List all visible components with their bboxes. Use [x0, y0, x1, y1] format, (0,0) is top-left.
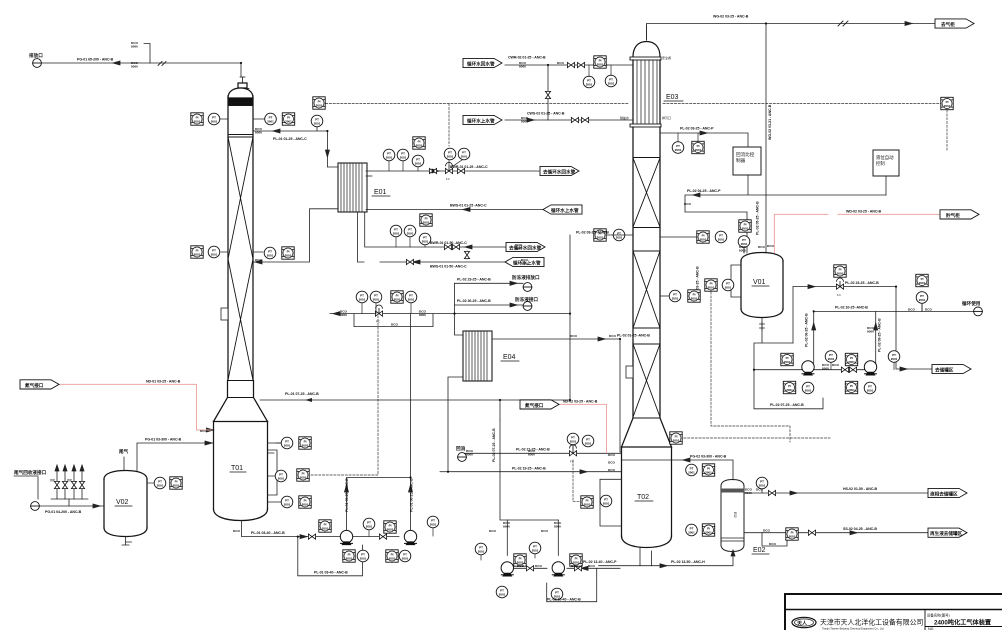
flag [463, 115, 502, 124]
svg-text:制器: 制器 [736, 157, 746, 164]
instrument bubble [613, 229, 625, 241]
svg-text:DCO: DCO [517, 564, 524, 568]
instrument bubble [672, 142, 684, 154]
svg-text:PL-01 06-25 - ANC-B: PL-01 06-25 - ANC-B [410, 478, 414, 512]
svg-text:8000: 8000 [822, 367, 829, 371]
svg-text:DCO: DCO [925, 307, 932, 311]
instrument bubble [715, 231, 727, 243]
instrument bubble [404, 225, 416, 237]
valve [457, 168, 464, 173]
flag [463, 58, 502, 67]
instrument square [845, 353, 857, 365]
instrument bubble [405, 291, 417, 303]
vent [458, 453, 467, 462]
instrument bubble [419, 233, 431, 245]
svg-text:DCO: DCO [908, 307, 915, 311]
svg-text:去循环水回水管: 去循环水回水管 [543, 168, 576, 175]
wire pump risers [347, 478, 411, 530]
instrument bubble [208, 246, 220, 258]
flag [932, 364, 971, 373]
wire T02 pump discharge [514, 567, 620, 569]
svg-text:SS-02 04-25 - ANC-B: SS-02 04-25 - ANC-B [843, 527, 877, 531]
svg-text:PL-02 01-25 -ANC-B: PL-02 01-25 -ANC-B [617, 334, 650, 338]
instrument square [570, 554, 582, 566]
valve [406, 259, 413, 264]
condenser E03 on column T02 [630, 26, 661, 127]
instrument bubble [888, 351, 900, 363]
vent [33, 59, 42, 68]
wire T02 right to E02 [672, 460, 734, 480]
wire E04 bottom to T02 lower feed [448, 377, 622, 472]
dashed signal lines [311, 104, 947, 502]
valve [54, 481, 59, 488]
instrument square [845, 381, 857, 393]
pump [404, 530, 416, 545]
instrument bubble [583, 76, 595, 88]
svg-text:V02: V02 [116, 499, 129, 506]
svg-text:DCO: DCO [588, 564, 595, 568]
wire E01 top circuit to CW flags [366, 170, 539, 172]
column T02 shell [622, 127, 672, 548]
instrument bubble [383, 149, 395, 161]
flag [20, 380, 59, 389]
wire storage flag line [896, 311, 932, 369]
column T01 shell [214, 77, 268, 521]
svg-text:BWS-01 01-50 -ANC-C: BWS-01 01-50 -ANC-C [430, 265, 467, 269]
reflux control box [733, 147, 761, 175]
svg-text:阻聚: 阻聚 [50, 478, 55, 482]
instrument bubble [600, 495, 612, 507]
wire overhead drop to V01 [765, 24, 767, 253]
svg-text:PL-01 05-25 - ANC-B: PL-01 05-25 - ANC-B [345, 478, 349, 512]
instrument bubble [427, 516, 439, 528]
svg-text:去循环水回水管: 去循环水回水管 [509, 244, 542, 251]
instrument square [739, 220, 751, 232]
wire T02 upper feed line [462, 452, 622, 454]
instrument square [697, 231, 709, 243]
wire vent to V02 [40, 505, 105, 507]
valve [444, 244, 451, 249]
svg-text:BWR-01 01-25 - ANC-C: BWR-01 01-25 - ANC-C [450, 165, 488, 169]
svg-text:E02: E02 [733, 512, 737, 518]
svg-text:天津市天人北洋化工设备有限公司: 天津市天人北洋化工设备有限公司 [820, 618, 923, 627]
instrument square [781, 353, 793, 365]
svg-text:E01: E01 [374, 189, 387, 196]
svg-text:PL-01 07-25 - ANC-B: PL-01 07-25 - ANC-B [285, 392, 319, 396]
instrument bubble [686, 464, 698, 476]
vent [31, 502, 40, 511]
instrument square [282, 247, 294, 259]
instrument squares [170, 56, 953, 566]
wire T01 right nozzle stems [268, 443, 282, 453]
flag [506, 242, 545, 251]
svg-text:PL-02 07-25 - ANC-B: PL-02 07-25 - ANC-B [492, 428, 496, 462]
svg-text:HS-02 01-50 - ANC-B: HS-02 01-50 - ANC-B [843, 487, 878, 491]
flag [928, 488, 967, 497]
svg-text:防冻液排放口: 防冻液排放口 [512, 274, 540, 281]
svg-text:DCO: DCO [767, 244, 774, 248]
flag [543, 205, 582, 214]
svg-text:8000: 8000 [419, 313, 426, 317]
instrument bubble [686, 524, 698, 536]
svg-text:N0:: N0: [928, 626, 934, 630]
svg-text:液位自动: 液位自动 [876, 154, 894, 161]
wire V01 level bridle [731, 265, 741, 297]
instrument bubble [738, 236, 750, 248]
exchanger E02 shell [721, 480, 744, 552]
instrument bubble [551, 588, 563, 600]
valve [581, 117, 588, 122]
instrument square [191, 246, 203, 258]
instrument bubble [154, 477, 166, 489]
svg-text:PL-02 19-25 - ANC-B: PL-02 19-25 - ANC-B [512, 467, 546, 471]
wire pump2 risers [814, 311, 876, 363]
svg-text:BWR-01 01-50 -ANC-C: BWR-01 01-50 -ANC-C [430, 241, 467, 245]
svg-text:BWS-01 01-25 -ANC-C: BWS-01 01-25 -ANC-C [450, 204, 487, 208]
instrument stems [147, 65, 922, 560]
svg-text:Tianjin Tianren Beiyang Chemic: Tianjin Tianren Beiyang Chemical Equipme… [822, 627, 884, 630]
svg-text:去储罐区: 去储罐区 [935, 366, 954, 373]
svg-text:排放口: 排放口 [29, 52, 43, 59]
level control box [873, 150, 899, 176]
instrument bubble [669, 290, 681, 302]
valve [526, 566, 533, 571]
wire E02 regen line [744, 532, 928, 534]
svg-text:氮气接口: 氮气接口 [25, 382, 44, 389]
instrument bubble [390, 225, 402, 237]
svg-text:DCO: DCO [233, 529, 240, 533]
instrument bubble [363, 518, 375, 530]
svg-text:8000: 8000 [503, 525, 510, 529]
svg-text:DCO: DCO [200, 429, 207, 433]
svg-text:8000: 8000 [745, 491, 752, 495]
svg-text:8000: 8000 [255, 131, 262, 135]
svg-text:再生液去储罐区: 再生液去储罐区 [930, 530, 963, 537]
instrument square [916, 274, 928, 286]
svg-text:PL-02 26-25 - ANC-B: PL-02 26-25 - ANC-B [457, 299, 491, 303]
instrument bubble [722, 279, 734, 291]
manhole T01 [221, 308, 228, 320]
svg-text:PL-02 03-25 -ANC-B: PL-02 03-25 -ANC-B [576, 231, 609, 235]
valve [71, 481, 76, 488]
svg-text:PG-01 65-200 - ANC-B: PG-01 65-200 - ANC-B [77, 58, 114, 62]
wire T01 side line PL-01 07 [260, 339, 570, 420]
svg-text:DCO: DCO [608, 453, 615, 457]
instrument bubble [864, 382, 876, 394]
svg-text:V01: V01 [753, 279, 766, 286]
pump [340, 530, 352, 545]
wire T02 bottom outlet [640, 547, 651, 565]
svg-text:除盐水: 除盐水 [620, 115, 629, 120]
svg-text:F.C: F.C [837, 293, 841, 297]
svg-text:PL-02 13-40 - ANC-P: PL-02 13-40 - ANC-P [583, 560, 617, 564]
vessel V02 shell [104, 471, 147, 537]
wire E04 outlet to T02 feed [492, 339, 622, 452]
wire TC stem top [316, 127, 318, 131]
valve [567, 62, 574, 67]
wire V02 overhead to T01 [137, 443, 214, 471]
svg-text:PL-02 06-25 - ANC-B: PL-02 06-25 - ANC-B [805, 313, 809, 347]
wire pump discharge riser to FIC line [410, 314, 412, 478]
control valve [569, 445, 576, 456]
flag [928, 528, 967, 537]
wire E03 reflux out to box [660, 133, 748, 147]
svg-text:PL-01 03-40 - ANC-B: PL-01 03-40 - ANC-B [314, 571, 348, 575]
instrument bubble [567, 433, 579, 445]
instrument square [692, 141, 704, 153]
svg-text:尾气: 尾气 [119, 448, 129, 455]
instrument square [297, 469, 309, 481]
svg-text:尾气回收液接口: 尾气回收液接口 [14, 469, 47, 476]
instrument square [594, 56, 606, 68]
valve [79, 481, 84, 488]
svg-text:DCO: DCO [763, 529, 770, 533]
svg-text:8000: 8000 [554, 525, 561, 529]
gate valves [308, 62, 856, 571]
svg-text:PL-02 21-25 - ANC-B: PL-02 21-25 - ANC-B [516, 448, 550, 452]
instrument square [702, 464, 714, 476]
wire BW bypass valve [466, 251, 468, 259]
svg-text:循环水上水管: 循环水上水管 [467, 117, 495, 124]
wire feed gas to T01 top [42, 63, 242, 77]
flag CWR inlet [20, 19, 979, 537]
svg-text:8000: 8000 [521, 262, 528, 266]
title block [785, 594, 1002, 630]
svg-text:安全阀: 安全阀 [662, 55, 671, 60]
svg-text:阻聚: 阻聚 [67, 478, 72, 482]
svg-text:天人: 天人 [797, 620, 808, 627]
wire reflux control to V01 [685, 175, 886, 253]
svg-text:排污口: 排污口 [662, 115, 671, 120]
instrument square [191, 113, 203, 125]
svg-text:8000: 8000 [528, 453, 535, 457]
instrument bubble [370, 291, 382, 303]
wire pump recirc loop [298, 537, 363, 576]
instrument square [420, 214, 432, 226]
svg-text:PL-01 01-25 - ANC-C: PL-01 01-25 - ANC-C [273, 137, 307, 141]
instrument bubble [496, 586, 508, 598]
svg-text:8000: 8000 [340, 313, 347, 317]
wire T02 level bridle [600, 479, 622, 526]
svg-text:8000: 8000 [466, 453, 473, 457]
flag [540, 166, 579, 175]
wire RV line [793, 287, 896, 312]
instrument square [705, 279, 717, 291]
svg-text:DCO: DCO [608, 461, 615, 465]
instrument square [282, 113, 294, 125]
instrument bubble [397, 149, 409, 161]
wire V01 bottom to pumps [754, 318, 793, 370]
valve [571, 117, 578, 122]
svg-text:PL-02 23-25 - ANC-B: PL-02 23-25 - ANC-B [845, 281, 879, 285]
svg-text:PL-02 10-25 -ANC-B: PL-02 10-25 -ANC-B [835, 306, 868, 310]
instrument bubble [281, 496, 293, 508]
svg-text:T02: T02 [637, 494, 649, 501]
pump [802, 361, 814, 376]
wire FIC bottoms line [330, 313, 570, 315]
instrument bubble [208, 113, 220, 125]
instrument bubble [825, 351, 837, 363]
svg-text:DCO: DCO [571, 564, 578, 568]
DCO markers [131, 41, 932, 568]
instrument square [581, 496, 593, 508]
svg-text:8000: 8000 [131, 45, 138, 49]
pump [501, 562, 513, 577]
wire T01 bottom outlet to pumps [242, 521, 341, 537]
svg-text:DCO: DCO [832, 363, 839, 367]
svg-text:T01: T01 [231, 465, 243, 472]
instrument square [670, 432, 682, 444]
pump [552, 562, 564, 577]
svg-text:PL-02 05-25 - ANC-B: PL-02 05-25 - ANC-B [756, 201, 760, 235]
svg-text:8000: 8000 [515, 247, 522, 251]
svg-text:F.0: F.0 [446, 177, 450, 181]
logo [792, 617, 816, 627]
valve [379, 534, 386, 539]
heat exchanger E01 [338, 163, 367, 212]
instrument square [313, 97, 325, 109]
svg-text:DCO: DCO [608, 468, 615, 472]
instrument square [391, 291, 403, 303]
svg-text:PL-02 23-25 - ANC-B: PL-02 23-25 - ANC-B [457, 278, 491, 282]
instrument bubble [458, 148, 470, 160]
svg-text:E03: E03 [666, 94, 679, 101]
valve [62, 481, 67, 488]
svg-text:F.C: F.C [570, 460, 574, 464]
svg-text:DCO: DCO [391, 323, 398, 327]
instrument square [783, 381, 795, 393]
wire E02 product line [744, 492, 928, 494]
instrument square [299, 437, 311, 449]
pipe labels [45, 15, 882, 602]
svg-text:去气柜: 去气柜 [941, 21, 955, 28]
svg-text:DCO: DCO [758, 245, 765, 249]
instrument square [413, 137, 425, 149]
svg-text:控制: 控制 [876, 160, 885, 167]
vessel V01 shell [741, 253, 783, 318]
wire V02 top stub [123, 457, 125, 471]
valve [308, 534, 315, 539]
instrument bubble [356, 291, 368, 303]
instrument bubble [916, 292, 928, 304]
wire T01 overhead to E01 [253, 131, 338, 167]
control valve [836, 278, 843, 289]
wire V01 PT stem [743, 248, 745, 253]
svg-text:PL-01 03-40 - ANC-B: PL-01 03-40 - ANC-B [251, 531, 285, 535]
flag [935, 19, 974, 28]
wire dashed TC T02 [680, 437, 830, 439]
instrument bubble [281, 437, 293, 449]
wire E03 overhead to gas holder [647, 24, 936, 27]
svg-text:循环使用: 循环使用 [962, 300, 981, 307]
wire V02 bottom drain [122, 537, 132, 546]
instrument circles [154, 75, 928, 600]
wire dashed LICA T01 to FIC riser [311, 316, 378, 475]
control valve [445, 162, 452, 173]
svg-text:WD-02 03-25 - ANC-B: WD-02 03-25 - ANC-B [846, 209, 882, 213]
wire T01 left top instruments stem [220, 118, 264, 120]
svg-text:DCO: DCO [535, 564, 542, 568]
svg-text:ND-01 03-25 - ANC-B: ND-01 03-25 - ANC-B [146, 379, 181, 383]
instrument bubble [802, 382, 814, 394]
instrument square [384, 521, 396, 533]
instrument square [786, 528, 798, 540]
valve [574, 566, 581, 571]
control valve [375, 305, 382, 316]
svg-text:F.C: F.C [376, 320, 380, 324]
instrument square [594, 229, 606, 241]
instrument bubble [357, 550, 369, 562]
instrument square [688, 290, 700, 302]
manhole T02 [626, 366, 633, 378]
pump [864, 361, 876, 376]
instrument bubble [475, 543, 487, 555]
svg-text:PL-02 03-25 - ANC-P: PL-02 03-25 - ANC-P [680, 127, 714, 131]
pink waste gas line [774, 214, 940, 252]
svg-text:8000: 8000 [519, 65, 526, 69]
svg-text:氮气接口: 氮气接口 [525, 402, 544, 409]
instrument square [941, 97, 953, 109]
instrument bubble [399, 550, 411, 562]
instrument bubble [275, 470, 287, 482]
wire T02 lower feed line PL-02 19 [440, 471, 448, 473]
svg-text:循环水上水管: 循环水上水管 [551, 207, 579, 214]
instrument bubble [264, 247, 276, 259]
valve [452, 244, 459, 249]
instrument square [170, 477, 182, 489]
instrument square [386, 550, 398, 562]
svg-text:8000: 8000 [131, 65, 138, 69]
svg-text:8000: 8000 [867, 330, 874, 334]
injection quill valves [54, 481, 84, 488]
instrument square [834, 265, 846, 277]
svg-text:2400吨化工气体装置: 2400吨化工气体装置 [934, 619, 991, 627]
wire dashed V01 LICA [711, 292, 790, 442]
valve [841, 367, 848, 372]
svg-text:PL-02 09-25 - ANC-B: PL-02 09-25 - ANC-B [878, 318, 882, 352]
valve [464, 251, 469, 258]
svg-text:PL-02 13-50 - ANC-H: PL-02 13-50 - ANC-H [671, 560, 705, 564]
instrument bubble [265, 113, 277, 125]
instrument square [514, 554, 526, 566]
svg-text:DCO: DCO [570, 334, 577, 338]
instrument bubble [582, 435, 594, 447]
instrument square [319, 520, 331, 532]
svg-text:回流比控: 回流比控 [736, 151, 755, 158]
svg-text:设备名称(图号): 设备名称(图号) [927, 613, 950, 618]
wire E01 shell out down to T01 return [254, 209, 339, 262]
instrument bubble [756, 477, 768, 489]
svg-text:液相去储罐区: 液相去储罐区 [930, 490, 958, 497]
svg-text:DCO: DCO [684, 202, 691, 206]
svg-text:WG-02 03-25 - ANC-B: WG-02 03-25 - ANC-B [713, 15, 749, 19]
flag [940, 210, 979, 219]
pink nitrogen line 2 [558, 404, 607, 452]
heat exchanger E04 [463, 331, 492, 381]
svg-text:PG-01 03-300 - ANC-B: PG-01 03-300 - ANC-B [145, 438, 182, 442]
svg-text:CWS-02 01-25 - ANC-B: CWS-02 01-25 - ANC-B [527, 112, 565, 116]
svg-text:PG-02 03-300 - ANC-B: PG-02 03-300 - ANC-B [690, 455, 727, 459]
vent [974, 307, 983, 316]
wire T02 pumps suction [500, 420, 558, 520]
valve [808, 530, 815, 535]
svg-text:8000: 8000 [739, 249, 746, 253]
svg-text:PG-01 04-200 - ANC-B: PG-01 04-200 - ANC-B [45, 510, 82, 514]
instrument bubble [529, 542, 541, 554]
valve [577, 62, 584, 67]
flag [520, 400, 559, 409]
valve [429, 168, 436, 173]
